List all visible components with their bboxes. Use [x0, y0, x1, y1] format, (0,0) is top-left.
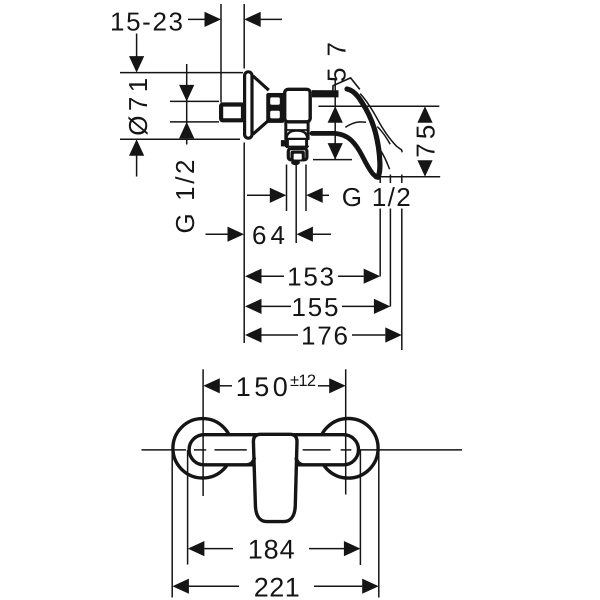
svg-text:155: 155: [292, 292, 339, 322]
svg-text:184: 184: [248, 535, 295, 565]
svg-text:G 1/2: G 1/2: [342, 182, 411, 212]
svg-text:64: 64: [252, 220, 285, 250]
svg-text:±12: ±12: [290, 372, 316, 390]
svg-text:176: 176: [301, 320, 348, 350]
svg-text:Ø71: Ø71: [123, 78, 153, 136]
svg-text:G 1/2: G 1/2: [170, 160, 200, 234]
svg-text:153: 153: [287, 262, 334, 292]
svg-text:150: 150: [236, 372, 288, 402]
svg-text:75: 75: [410, 125, 440, 158]
svg-text:15-23: 15-23: [110, 6, 183, 36]
svg-text:57: 57: [321, 42, 351, 82]
svg-text:221: 221: [254, 572, 300, 600]
